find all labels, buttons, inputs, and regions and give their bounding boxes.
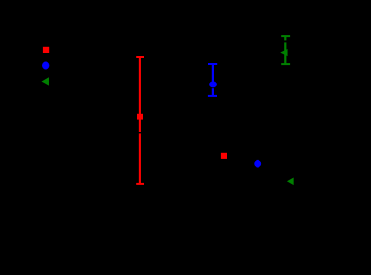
green left-triangle marker point 2 bbox=[288, 178, 294, 184]
red errorbar bottom cap bbox=[136, 183, 144, 185]
red square marker point 1 bbox=[137, 114, 143, 120]
green errorbar bottom cap bbox=[281, 63, 290, 65]
green errorbar upper line bbox=[284, 36, 286, 40]
green errorbar lower line bbox=[284, 42, 286, 64]
red errorbar lower line bbox=[139, 133, 141, 184]
red square marker point 2 bbox=[221, 153, 227, 159]
red errorbar upper line bbox=[139, 57, 141, 132]
legend marker red square bbox=[43, 47, 49, 53]
legend marker blue circle bbox=[42, 62, 49, 70]
blue errorbar top cap bbox=[208, 63, 217, 65]
blue errorbar bottom cap bbox=[208, 95, 217, 97]
blue errorbar upper line bbox=[212, 64, 214, 87]
red errorbar top cap bbox=[136, 56, 144, 58]
legend marker green left-triangle bbox=[42, 78, 48, 85]
green errorbar top cap bbox=[281, 35, 290, 37]
blue circle marker point 1 bbox=[209, 82, 216, 87]
blue errorbar small line point 2 bbox=[257, 160, 259, 168]
blue errorbar lower line bbox=[212, 88, 214, 96]
green left-triangle marker point 1 bbox=[281, 50, 287, 56]
blue circle marker point 2 bbox=[255, 161, 261, 167]
